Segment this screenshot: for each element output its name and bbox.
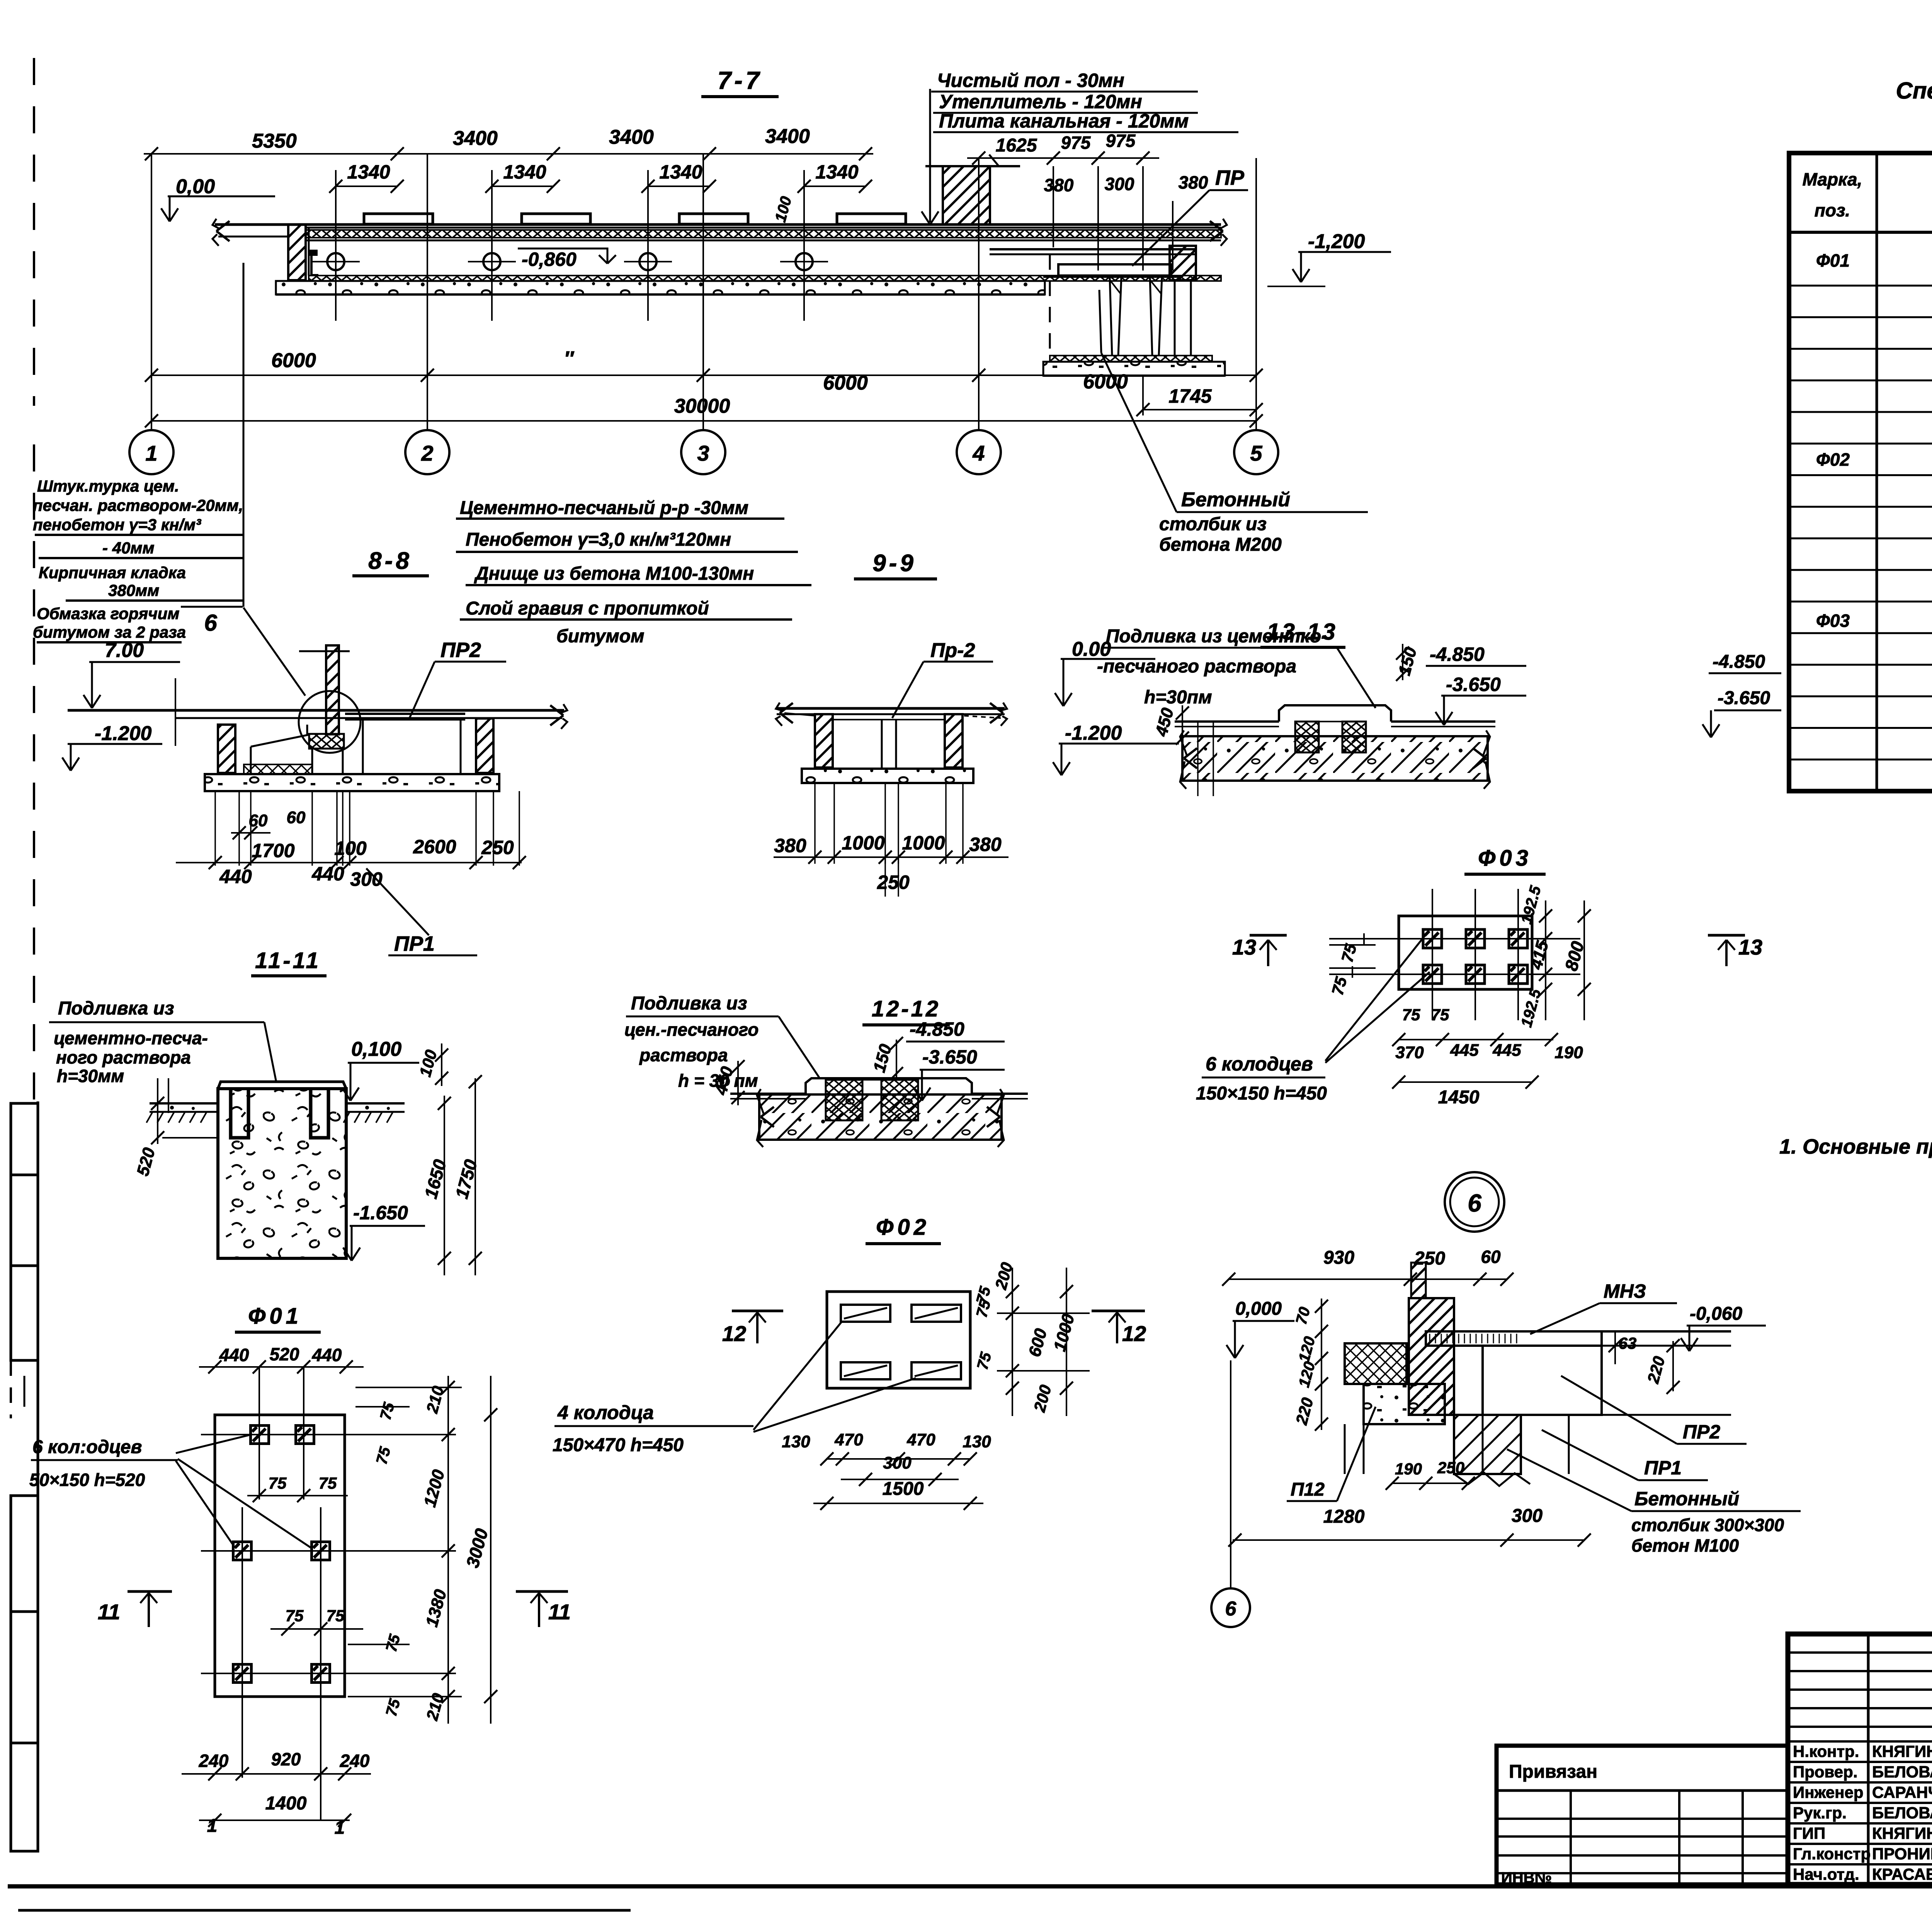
9-9 slab lines xyxy=(777,707,1005,710)
svg-text:МНЗ: МНЗ xyxy=(1604,1280,1646,1302)
svg-text:11: 11 xyxy=(548,1600,571,1624)
svg-text:1340: 1340 xyxy=(659,161,702,183)
13-13 base break left xyxy=(1184,748,1197,758)
svg-text:150×470 h=450: 150×470 h=450 xyxy=(553,1435,684,1455)
Ф01 column centerlines top xyxy=(259,1367,260,1492)
svg-text:7-7: 7-7 xyxy=(718,66,763,94)
dim row 6000 6000 6000 xyxy=(151,374,1256,376)
svg-text:-3.650: -3.650 xyxy=(1446,674,1501,695)
left strip dashes xyxy=(10,1360,12,1418)
leader to concrete post xyxy=(1101,353,1177,512)
svg-text:440: 440 xyxy=(311,863,344,885)
node6 break bottom xyxy=(1454,1472,1530,1486)
svg-text:1450: 1450 xyxy=(1438,1087,1480,1108)
bottom paper edge artifact xyxy=(18,1909,631,1912)
svg-text:4: 4 xyxy=(972,441,985,465)
title block name rows xyxy=(1788,1740,1932,1743)
12-12 floor lines xyxy=(730,1093,806,1095)
pit right wall hatched xyxy=(1170,246,1196,280)
pit base slab xyxy=(1043,362,1225,376)
svg-text:6: 6 xyxy=(1468,1189,1481,1217)
9-9 slab left break xyxy=(780,703,793,713)
8-8 interior hatch strip xyxy=(244,764,312,774)
Ф03 wells row 2 xyxy=(1423,965,1442,984)
svg-text:13: 13 xyxy=(1738,935,1762,959)
channel slab hatched strip xyxy=(306,230,1221,238)
12-12 base break right xyxy=(987,1107,1000,1117)
svg-text:2: 2 xyxy=(421,441,433,465)
svg-text:Инженер: Инженер xyxy=(1793,1783,1864,1801)
svg-text:битумом за 2 раза: битумом за 2 раза xyxy=(33,623,186,641)
privyazan grid rows xyxy=(1497,1818,1788,1820)
svg-text:Утеплитель - 120мн: Утеплитель - 120мн xyxy=(939,91,1142,112)
Ф03 centerlines vertical xyxy=(1432,889,1433,1020)
13-13 floor lines xyxy=(1175,720,1279,723)
wall step bracket xyxy=(309,250,318,256)
svg-text:60: 60 xyxy=(287,808,306,827)
axis circle 1 xyxy=(129,430,173,474)
svg-text:цементно-песча-: цементно-песча- xyxy=(54,1028,208,1048)
svg-text:75: 75 xyxy=(269,1474,287,1492)
svg-text:Бетонный: Бетонный xyxy=(1181,488,1290,511)
svg-text:930: 930 xyxy=(1323,1248,1354,1268)
leader 13-13 note xyxy=(1294,647,1337,649)
svg-text:240: 240 xyxy=(199,1751,229,1771)
extension line between levels xyxy=(175,678,176,746)
shelf rect xyxy=(1058,264,1171,276)
floor notes leader vertical xyxy=(929,89,931,222)
svg-text:Подливка из: Подливка из xyxy=(58,998,174,1019)
svg-text:БЕЛОВА: БЕЛОВА xyxy=(1872,1804,1932,1822)
svg-text:300: 300 xyxy=(1105,174,1134,194)
svg-text:Н.контр.: Н.контр. xyxy=(1793,1742,1859,1760)
svg-text:5: 5 xyxy=(1250,441,1262,465)
8-8 floor line xyxy=(68,709,564,712)
svg-text:ИНВ№: ИНВ№ xyxy=(1501,1869,1552,1886)
level label -0,860 xyxy=(518,248,598,250)
beam lines under floor right xyxy=(990,248,1196,250)
Ф03 centerlines horizontal xyxy=(1329,938,1580,940)
axis circle 3 xyxy=(681,430,725,474)
Ф02 right dim chains xyxy=(1012,1268,1013,1416)
svg-text:битумом: битумом xyxy=(556,626,645,647)
svg-text:h=30мм: h=30мм xyxy=(57,1066,124,1086)
Ф03 dim 1450 xyxy=(1399,1081,1532,1083)
svg-text:ПРОНИН: ПРОНИН xyxy=(1872,1845,1932,1863)
svg-text:13: 13 xyxy=(1232,935,1256,959)
dimension row 5350/3400/3400/3400 xyxy=(144,153,873,155)
title block left upper rows xyxy=(1788,1651,1932,1654)
svg-text:9-9: 9-9 xyxy=(872,550,917,577)
12-12 base band xyxy=(759,1094,1002,1140)
8-8 pad under pier xyxy=(309,734,344,749)
base slab with speckle xyxy=(276,281,1045,294)
shelf second line xyxy=(1043,276,1182,278)
svg-text:3400: 3400 xyxy=(453,127,498,150)
svg-text:380: 380 xyxy=(969,834,1002,855)
svg-text:380мм: 380мм xyxy=(108,581,159,599)
8-8 right wall hatched xyxy=(476,718,493,773)
svg-text:380: 380 xyxy=(1044,175,1074,195)
svg-text:-1.200: -1.200 xyxy=(1065,722,1122,744)
leaders 4 wells xyxy=(753,1321,842,1430)
svg-text:Слой гравия с пропиткой: Слой гравия с пропиткой xyxy=(466,598,709,619)
svg-text:250: 250 xyxy=(1437,1459,1464,1477)
floor right end break xyxy=(1210,221,1223,231)
svg-text:30000: 30000 xyxy=(674,395,730,417)
13-13 base gravel band xyxy=(1182,736,1488,781)
svg-text:Пр-2: Пр-2 xyxy=(930,639,975,662)
svg-text:Рук.гр.: Рук.гр. xyxy=(1793,1804,1847,1822)
svg-text:250: 250 xyxy=(481,837,514,858)
svg-text:190: 190 xyxy=(1554,1043,1583,1062)
8-8 channel interior lines xyxy=(235,725,236,773)
svg-text:Ф03: Ф03 xyxy=(1816,611,1850,631)
svg-text:250: 250 xyxy=(877,871,910,893)
Ф01 row centerlines xyxy=(201,1434,456,1435)
privyazan grid columns xyxy=(1570,1791,1572,1884)
leader 11-11 note xyxy=(264,1022,276,1082)
svg-text:песчан. раствором-20мм,: песчан. раствором-20мм, xyxy=(33,496,243,514)
section marks 11 plan right xyxy=(516,1590,568,1593)
spec table outer frame xyxy=(1789,153,1932,791)
section marks 13 left xyxy=(1250,934,1287,937)
svg-text:Ф03: Ф03 xyxy=(1478,846,1532,871)
svg-text:Нач.отд.: Нач.отд. xyxy=(1793,1865,1859,1883)
svg-text:75: 75 xyxy=(1431,1006,1449,1024)
svg-text:445: 445 xyxy=(1492,1041,1521,1060)
svg-text:-3.650: -3.650 xyxy=(922,1046,977,1068)
node6 cross-hatched pad xyxy=(1345,1343,1406,1384)
axis line 5 xyxy=(1255,158,1257,430)
svg-text:-0,860: -0,860 xyxy=(522,248,577,270)
svg-text:-1,200: -1,200 xyxy=(1308,230,1365,253)
privyazan row line xyxy=(1497,1789,1788,1792)
svg-text:75: 75 xyxy=(286,1607,304,1625)
svg-text:ПР2: ПР2 xyxy=(1683,1421,1720,1443)
svg-text:6: 6 xyxy=(1225,1598,1237,1620)
floor left break xyxy=(216,221,230,231)
svg-text:Плита канальная - 120мм: Плита канальная - 120мм xyxy=(939,110,1189,132)
svg-text:-4.850: -4.850 xyxy=(910,1018,964,1040)
svg-text:60: 60 xyxy=(249,811,268,830)
axis line 4 xyxy=(978,158,980,430)
svg-text:бетона М200: бетона М200 xyxy=(1159,534,1282,555)
13-13 extension ticks xyxy=(1197,722,1199,796)
13-13 bedding cap xyxy=(1279,705,1391,722)
svg-text:Ф02: Ф02 xyxy=(1816,449,1850,470)
svg-text:1340: 1340 xyxy=(815,161,858,183)
left binding strip boxes xyxy=(11,1103,38,1175)
svg-text:1745: 1745 xyxy=(1168,385,1212,407)
svg-text:ПР1: ПР1 xyxy=(394,932,435,955)
12-12 columns hatched xyxy=(826,1080,862,1120)
svg-text:11: 11 xyxy=(98,1600,120,1624)
svg-text:раствора: раствора xyxy=(639,1045,728,1065)
svg-text:САРАНЧА: САРАНЧА xyxy=(1872,1783,1932,1801)
9-9 right wall hatched xyxy=(945,714,963,768)
left support leg xyxy=(1110,277,1112,356)
right dimension row 1625/975/975 xyxy=(967,157,1159,159)
floor slab top lines xyxy=(215,223,1221,226)
svg-text:столбик из: столбик из xyxy=(1159,514,1267,534)
pit bottom hatched strip xyxy=(1050,356,1212,362)
Ф03 outline xyxy=(1399,916,1532,989)
node6 axis circle 6 xyxy=(1211,1588,1250,1627)
svg-text:КРАСАВИН: КРАСАВИН xyxy=(1872,1865,1932,1883)
svg-text:Привязан: Привязан xyxy=(1509,1762,1597,1782)
extension lines through pipes xyxy=(335,170,337,321)
node6 lines below xyxy=(1482,1415,1484,1474)
8-8 node circle xyxy=(299,691,361,753)
svg-text:-1.650: -1.650 xyxy=(353,1202,408,1224)
axis circle 5 xyxy=(1234,430,1278,474)
section marks 11 plan left xyxy=(128,1590,172,1593)
svg-text:6000: 6000 xyxy=(823,372,868,394)
bottom frame line xyxy=(8,1884,1932,1889)
svg-text:1: 1 xyxy=(145,441,157,465)
svg-text:11-11: 11-11 xyxy=(255,948,321,973)
svg-text:380: 380 xyxy=(1179,172,1208,192)
svg-text:190: 190 xyxy=(1395,1460,1422,1478)
svg-text:130: 130 xyxy=(782,1432,810,1451)
svg-text:-0,060: -0,060 xyxy=(1690,1304,1742,1324)
svg-text:пенобетон γ=3 кн/м³: пенобетон γ=3 кн/м³ xyxy=(33,516,201,534)
Ф03 dim row 370 445 445 190 xyxy=(1399,1039,1553,1040)
svg-text:Кирпичная кладка: Кирпичная кладка xyxy=(39,563,186,582)
dim row 30000 xyxy=(151,420,1256,422)
svg-text:440: 440 xyxy=(219,1345,249,1365)
8-8 dim extension verticals xyxy=(214,791,216,866)
svg-text:3400: 3400 xyxy=(765,125,810,148)
svg-text:100: 100 xyxy=(334,837,367,859)
svg-text:1280: 1280 xyxy=(1323,1506,1365,1527)
12-12 bedding cap xyxy=(806,1078,972,1094)
svg-text:12: 12 xyxy=(722,1321,746,1346)
11-11 rotated dims 1650 1750 xyxy=(444,1096,445,1275)
8-8 central pier hatched xyxy=(326,645,339,734)
node6 wall hatched vertical xyxy=(1409,1298,1454,1415)
svg-text:5350: 5350 xyxy=(252,130,297,152)
svg-text:50×150 h=520: 50×150 h=520 xyxy=(29,1470,145,1490)
svg-text:Спецификация к монолитным ф: Спецификация к монолитным фундамвнтам xyxy=(1896,78,1932,104)
node6 left wall below xyxy=(1363,1384,1365,1474)
8-8 base slab speckled xyxy=(205,774,499,791)
svg-text:440: 440 xyxy=(312,1345,342,1365)
pier cap tick xyxy=(989,155,999,166)
pier above floor right xyxy=(943,166,990,225)
Ф01 column centerlines bottom xyxy=(241,1507,243,1778)
svg-text:Днище из бетона М100-130мн: Днище из бетона М100-130мн xyxy=(474,563,754,584)
8-8 beam PR2 lines xyxy=(345,713,465,715)
svg-text:2600: 2600 xyxy=(413,836,456,858)
dashed step line xyxy=(1049,254,1051,356)
13-13 base break right xyxy=(1473,748,1486,758)
svg-text:1400: 1400 xyxy=(265,1793,307,1814)
svg-text:75: 75 xyxy=(1402,1006,1420,1024)
svg-text:6 кол:одцев: 6 кол:одцев xyxy=(32,1437,142,1457)
12-12 base break left xyxy=(761,1107,774,1117)
svg-text:БЕЛОВА: БЕЛОВА xyxy=(1872,1763,1932,1781)
svg-text:-4.850: -4.850 xyxy=(1430,643,1485,665)
svg-text:520: 520 xyxy=(270,1344,299,1364)
left wall hatched xyxy=(288,225,306,280)
svg-text:1500: 1500 xyxy=(883,1479,924,1499)
section marks 12 right xyxy=(1092,1310,1145,1312)
legend leader line xyxy=(243,263,245,607)
svg-text:1700: 1700 xyxy=(252,840,294,861)
node 6 balloon xyxy=(1445,1172,1504,1232)
svg-text:920: 920 xyxy=(271,1749,301,1769)
svg-text:ГИП: ГИП xyxy=(1793,1824,1825,1842)
leaders 6 wells Ф01 xyxy=(176,1435,251,1453)
svg-text:1340: 1340 xyxy=(503,161,546,183)
svg-text:240: 240 xyxy=(340,1751,370,1771)
svg-text:60: 60 xyxy=(1481,1247,1501,1267)
svg-text:-1.200: -1.200 xyxy=(95,722,152,745)
svg-text:″: ″ xyxy=(564,347,575,370)
Ф02 outline xyxy=(827,1292,970,1388)
svg-text:3400: 3400 xyxy=(609,126,654,148)
svg-text:ПР1: ПР1 xyxy=(1644,1457,1682,1479)
Ф01 right dim chain 1 xyxy=(447,1376,449,1724)
13-13 columns hatched xyxy=(1295,722,1319,752)
node6 column hatched below xyxy=(1454,1415,1521,1474)
svg-text:ного раствора: ного раствора xyxy=(56,1047,191,1067)
spec table column lines xyxy=(1876,153,1878,791)
svg-text:0,00: 0,00 xyxy=(176,175,215,198)
node6 box PR2 xyxy=(1483,1346,1602,1415)
svg-text:1. Основные примечания и сечен: 1. Основные примечания и сечения указаны… xyxy=(1779,1135,1932,1158)
svg-text:6000: 6000 xyxy=(1083,371,1128,393)
channel bottom hatched strip xyxy=(309,276,1221,281)
section marks 12 left xyxy=(732,1310,783,1312)
svg-text:6: 6 xyxy=(204,610,217,636)
axis circle 2 xyxy=(405,430,449,474)
svg-text:-3.650: -3.650 xyxy=(1718,688,1770,708)
svg-text:1625: 1625 xyxy=(996,135,1037,156)
leader 12-12 note xyxy=(779,1016,819,1077)
svg-text:3: 3 xyxy=(697,441,709,465)
svg-text:1000: 1000 xyxy=(902,832,945,854)
8-8 floor right break xyxy=(550,705,563,715)
svg-text:0,100: 0,100 xyxy=(351,1038,401,1060)
axis line 3 xyxy=(702,154,704,430)
svg-text:Обмазка горячим: Обмазка горячим xyxy=(37,604,179,623)
svg-text:975: 975 xyxy=(1106,131,1136,151)
svg-text:Пенобетон γ=3,0 кн/м³120мн: Пенобетон γ=3,0 кн/м³120мн xyxy=(466,529,731,550)
9-9 extension verticals xyxy=(814,783,816,864)
left frame dashed line xyxy=(33,58,35,406)
svg-text:470: 470 xyxy=(906,1430,935,1449)
svg-text:440: 440 xyxy=(219,866,252,887)
svg-text:8-8: 8-8 xyxy=(368,548,412,574)
svg-text:300: 300 xyxy=(1512,1506,1543,1526)
8-8 left wall hatched xyxy=(218,725,235,773)
base slab bottom line xyxy=(276,293,1045,296)
svg-text:75: 75 xyxy=(327,1607,345,1625)
Ф02 slot wells xyxy=(841,1305,890,1322)
11-11 form slots xyxy=(231,1089,248,1138)
dimension 1340 group xyxy=(336,186,397,187)
svg-text:12-12: 12-12 xyxy=(872,996,940,1021)
title block outer frame xyxy=(1788,1634,1932,1884)
pipe circles in channel xyxy=(327,253,344,270)
svg-text:975: 975 xyxy=(1061,133,1091,153)
svg-text:370: 370 xyxy=(1395,1043,1424,1062)
svg-text:цен.-песчаного: цен.-песчаного xyxy=(624,1020,759,1040)
svg-text:6 колодцев: 6 колодцев xyxy=(1206,1053,1313,1075)
node6 wall sliver top xyxy=(1411,1263,1426,1298)
svg-text:h=30пм: h=30пм xyxy=(1144,687,1212,708)
svg-text:380: 380 xyxy=(774,835,806,856)
9-9 left pavement dots xyxy=(784,713,815,716)
svg-text:Подливка из цементко-: Подливка из цементко- xyxy=(1106,626,1327,647)
leaders 6 wells Ф03 xyxy=(1325,934,1426,1061)
svg-text:столбик 300×300: столбик 300×300 xyxy=(1631,1515,1784,1535)
Ф01 outline xyxy=(215,1415,345,1697)
svg-text:7.00: 7.00 xyxy=(105,639,144,662)
svg-text:63: 63 xyxy=(1619,1334,1637,1352)
svg-text:Ф02: Ф02 xyxy=(876,1215,930,1240)
9-9 slab right break xyxy=(990,703,1003,713)
svg-text:Ф01: Ф01 xyxy=(248,1304,302,1329)
Ф03 wells row 1 xyxy=(1423,929,1442,948)
node6 speckled block xyxy=(1364,1384,1445,1424)
right extension verticals xyxy=(1053,166,1054,247)
spec table row lines xyxy=(1789,285,1932,287)
svg-text:- 40мм: - 40мм xyxy=(102,539,155,557)
svg-text:П12: П12 xyxy=(1291,1479,1325,1500)
11-11 foundation block xyxy=(218,1089,346,1258)
svg-text:КНЯГИНИЧЕВ: КНЯГИНИЧЕВ xyxy=(1872,1824,1932,1842)
svg-text:130: 130 xyxy=(963,1432,991,1451)
privyazan box frame xyxy=(1497,1746,1788,1884)
svg-text:-4.850: -4.850 xyxy=(1713,652,1765,672)
11-11 ground right xyxy=(346,1102,405,1105)
9-9 left wall hatched xyxy=(815,714,833,768)
Ф03 right dim chain xyxy=(1545,900,1546,1020)
equipment pads on floor xyxy=(364,214,433,224)
svg-text:300: 300 xyxy=(883,1454,912,1472)
node6 floor lines right xyxy=(1602,1330,1731,1333)
title block left columns xyxy=(1867,1634,1870,1884)
svg-text:75: 75 xyxy=(319,1474,337,1492)
svg-text:470: 470 xyxy=(834,1430,863,1449)
svg-text:150×150 h=450: 150×150 h=450 xyxy=(1196,1083,1327,1104)
svg-text:Ф01: Ф01 xyxy=(1816,250,1850,271)
section marks 13 right xyxy=(1708,934,1745,937)
8-8 right channel interior xyxy=(362,720,364,773)
svg-text:1000: 1000 xyxy=(842,832,884,854)
axis line 1 xyxy=(151,154,152,430)
right support leg xyxy=(1150,277,1152,356)
9-9 base slab xyxy=(802,769,973,783)
svg-text:КНЯГИНИЧЕВ: КНЯГИНИЧЕВ xyxy=(1872,1742,1932,1760)
left frame solid line xyxy=(37,1101,39,1852)
svg-text:Бетонный: Бетонный xyxy=(1634,1488,1739,1510)
axis circle 4 xyxy=(957,430,1001,474)
svg-text:Цементно-песчаный р-р -30мм: Цементно-песчаный р-р -30мм xyxy=(460,498,748,518)
svg-text:4 колодца: 4 колодца xyxy=(557,1402,654,1423)
Ф01 wells xyxy=(251,1426,269,1444)
svg-text:-песчаного раствора: -песчаного раствора xyxy=(1097,656,1296,677)
spec table header bottom line xyxy=(1789,231,1932,234)
Ф02 centerlines xyxy=(997,1312,1090,1314)
9-9 middle column xyxy=(881,720,883,768)
svg-text:1340: 1340 xyxy=(347,161,390,183)
svg-text:ПР: ПР xyxy=(1215,166,1245,189)
